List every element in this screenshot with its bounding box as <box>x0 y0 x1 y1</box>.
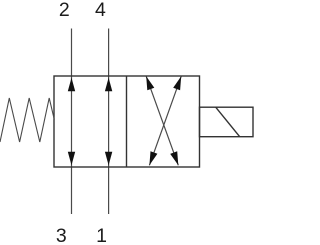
arrowhead top-right of line B <box>173 76 181 90</box>
spring (return spring, left) <box>0 98 54 142</box>
divider between positions <box>126 76 128 167</box>
arrowhead down on port-4 path <box>105 152 112 166</box>
arrowhead up on port-2 path <box>68 78 75 92</box>
crossed flow line A (top-left to bottom-right) <box>146 76 178 165</box>
solenoid box (right actuator) <box>200 107 254 137</box>
arrowhead down on port-2 path <box>68 152 75 166</box>
arrowhead top-left of line A <box>146 76 154 90</box>
arrowhead up on port-4 path <box>105 78 112 92</box>
crossed flow line B (top-right to bottom-left) <box>149 76 181 165</box>
svg-text:3: 3 <box>56 225 67 245</box>
wire port 4 line (top-right vertical, continues as arrow shaft) <box>108 29 110 215</box>
valve body outline (two-position box) <box>54 76 200 167</box>
svg-text:1: 1 <box>96 225 107 245</box>
wire port 2 line (top-left vertical, continues as arrow shaft) <box>71 29 73 215</box>
solenoid diagonal <box>216 107 240 137</box>
arrowhead bottom-left of line B <box>149 151 157 165</box>
arrowhead bottom-right of line A <box>170 151 178 165</box>
svg-text:4: 4 <box>95 0 106 21</box>
svg-text:2: 2 <box>59 0 70 21</box>
